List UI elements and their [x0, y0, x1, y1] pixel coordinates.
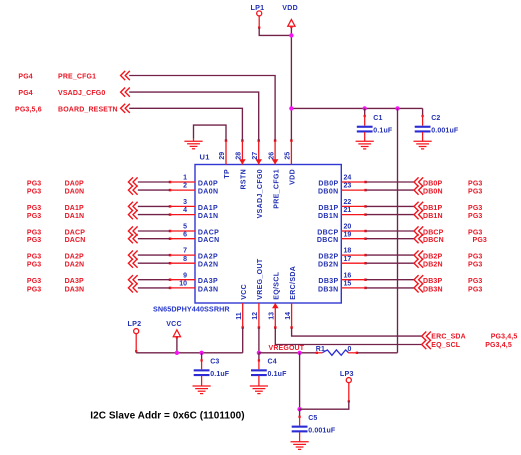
pin 4 stub (DA1N)	[170, 214, 195, 216]
svg-text:DB0P: DB0P	[318, 180, 338, 187]
svg-text:DA2N: DA2N	[198, 262, 218, 269]
svg-text:DBCP: DBCP	[423, 229, 444, 236]
junction C1	[363, 106, 367, 110]
svg-text:PG3: PG3	[27, 237, 41, 244]
off-page connector DB1P	[414, 202, 419, 211]
svg-text:DB2N: DB2N	[423, 262, 443, 269]
wire DA2P	[138, 254, 170, 256]
wire LP1 to VDD	[258, 16, 260, 27]
svg-text:DB1P: DB1P	[318, 205, 338, 212]
pin 27 input arrow	[255, 159, 262, 164]
svg-text:10: 10	[179, 281, 187, 288]
svg-text:DB2P: DB2P	[423, 254, 442, 261]
svg-text:PG3,4,5: PG3,4,5	[491, 334, 518, 341]
svg-text:0.1uF: 0.1uF	[268, 371, 288, 378]
svg-text:DA0N: DA0N	[65, 189, 85, 196]
pin 26 input arrow	[272, 159, 279, 164]
svg-text:RSTN: RSTN	[241, 169, 248, 189]
wire BOARD_RESETN	[129, 108, 242, 140]
pin 5 stub (DACP)	[170, 230, 195, 232]
pin 13 stub (EQ/SCL)	[274, 303, 276, 328]
svg-text:DA2N: DA2N	[65, 262, 85, 269]
svg-text:DB2P: DB2P	[318, 254, 338, 261]
junction VDD rail branch	[289, 106, 293, 110]
resistor R1 0 ohm	[315, 352, 323, 354]
capacitor C5 0.001uF	[299, 409, 301, 417]
svg-text:PG3: PG3	[468, 278, 482, 285]
svg-text:20: 20	[344, 224, 352, 231]
svg-text:C3: C3	[210, 359, 219, 366]
capacitor C1 0.1uF	[364, 108, 366, 116]
svg-text:19: 19	[344, 231, 352, 238]
ground under C5	[299, 432, 301, 442]
junction C3	[199, 351, 203, 355]
svg-text:DA3P: DA3P	[65, 278, 84, 285]
svg-text:LP3: LP3	[340, 369, 354, 378]
svg-text:VCC: VCC	[166, 321, 182, 328]
pin 18 stub (DB2P)	[341, 254, 365, 256]
off-page connector DB1N	[414, 210, 419, 219]
junction LP1/VDD	[289, 33, 293, 37]
power symbol VDD	[288, 19, 295, 26]
wire pin 12 down to VREGOUT	[258, 328, 260, 353]
ground under C1	[364, 132, 366, 141]
off-page connector DB0N	[414, 186, 419, 195]
svg-text:DA0P: DA0P	[198, 180, 218, 187]
svg-text:C4: C4	[268, 359, 277, 366]
svg-text:8: 8	[183, 256, 187, 263]
wire VSADJ_CFG0	[129, 92, 259, 141]
svg-text:PG3: PG3	[27, 286, 41, 293]
pin 6 stub (DACN)	[170, 238, 195, 240]
wire DA1N	[138, 214, 170, 216]
svg-text:VDD: VDD	[282, 5, 298, 12]
wire DACN	[138, 238, 170, 240]
capacitor C4 0.1uF	[258, 353, 260, 361]
svg-text:EQ_SCL: EQ_SCL	[431, 342, 460, 349]
svg-text:PG3: PG3	[468, 213, 482, 220]
svg-text:TP: TP	[224, 169, 231, 179]
svg-text:PG3: PG3	[27, 262, 41, 269]
wire VDD decoupling rail	[291, 107, 422, 109]
wire VCC rail	[136, 352, 243, 354]
junction VREGOUT branch	[297, 351, 301, 355]
svg-text:BOARD_RESETN: BOARD_RESETN	[58, 106, 118, 113]
off-page connector DB2N	[414, 259, 419, 268]
off-page connector DACN	[128, 234, 133, 243]
wire R1 to VDD down-line	[357, 352, 397, 354]
svg-text:SN65DPHY440SSRHR: SN65DPHY440SSRHR	[153, 304, 230, 313]
off-page connector DBCP	[414, 226, 419, 235]
svg-text:PG3,5,6: PG3,5,6	[15, 106, 42, 113]
svg-text:DB0N: DB0N	[423, 189, 443, 196]
svg-text:0.001uF: 0.001uF	[431, 128, 459, 135]
capacitor C3 0.1uF	[201, 353, 203, 361]
test point LP2	[134, 329, 139, 334]
svg-text:DA0N: DA0N	[198, 189, 218, 196]
svg-text:C2: C2	[431, 115, 440, 122]
svg-text:1: 1	[183, 175, 187, 182]
ground symbol at TP	[193, 139, 195, 142]
wire DBCN	[366, 238, 415, 240]
svg-text:DB1N: DB1N	[318, 213, 338, 220]
off-page connector VSADJ_CFG0	[121, 88, 126, 97]
junction VREGOUT/C4	[257, 351, 261, 355]
svg-text:PG3: PG3	[473, 237, 487, 244]
svg-text:PG3: PG3	[468, 262, 482, 269]
ground under C4	[258, 376, 260, 386]
wire LP2 to VCC rail	[135, 334, 137, 353]
wire DA3N	[138, 287, 170, 289]
svg-text:0.1uF: 0.1uF	[373, 128, 393, 135]
svg-text:PG3: PG3	[27, 205, 41, 212]
svg-text:DA1P: DA1P	[65, 205, 84, 212]
svg-text:17: 17	[344, 256, 352, 263]
svg-text:DA3N: DA3N	[198, 286, 218, 293]
ground under C3	[201, 376, 203, 386]
off-page connector DA3P	[128, 275, 133, 284]
svg-text:DA3P: DA3P	[198, 278, 218, 285]
wire VREGOUT	[259, 352, 317, 354]
svg-text:11: 11	[236, 312, 243, 320]
svg-text:28: 28	[236, 152, 243, 160]
wire DA2N	[138, 262, 170, 264]
off-page connector ERC_SDA	[422, 332, 427, 341]
svg-text:24: 24	[344, 175, 352, 182]
svg-text:DACP: DACP	[65, 229, 86, 236]
svg-text:15: 15	[344, 281, 352, 288]
svg-text:22: 22	[344, 199, 352, 206]
svg-text:PG3: PG3	[27, 213, 41, 220]
svg-text:VREG_OUT: VREG_OUT	[257, 258, 264, 300]
svg-text:29: 29	[219, 152, 226, 160]
svg-text:VSADJ_CFG0: VSADJ_CFG0	[58, 90, 105, 97]
pin 1 stub (DA0P)	[170, 181, 195, 183]
svg-text:PRE_CFG1: PRE_CFG1	[273, 169, 280, 209]
svg-text:DBCN: DBCN	[317, 237, 339, 244]
pin 25 stub (VDD)	[290, 141, 292, 165]
pin 28 stub (RSTN)	[241, 141, 243, 165]
wire ERC_SDA	[292, 328, 422, 337]
svg-text:PRE_CFG1: PRE_CFG1	[58, 74, 96, 81]
off-page connector EQ_SCL	[422, 340, 427, 349]
svg-text:U1: U1	[200, 152, 210, 161]
svg-text:3: 3	[183, 199, 187, 206]
svg-text:12: 12	[252, 312, 259, 320]
wire DB0P	[366, 181, 415, 183]
svg-text:DB3P: DB3P	[423, 278, 442, 285]
wire VDD down to R1	[397, 108, 399, 352]
svg-text:PG3: PG3	[468, 180, 482, 187]
pin 7 stub (DA2P)	[170, 254, 195, 256]
capacitor C2 0.001uF	[422, 108, 424, 116]
svg-text:DB3N: DB3N	[423, 286, 443, 293]
svg-text:PG3: PG3	[27, 229, 41, 236]
wire EQ_SCL	[275, 328, 421, 345]
off-page connector DA1P	[128, 202, 133, 211]
wire pin 11 down	[242, 328, 244, 353]
svg-text:16: 16	[344, 272, 352, 279]
wire DA0N	[138, 189, 170, 191]
off-page connector DA1N	[128, 210, 133, 219]
svg-text:C5: C5	[308, 415, 317, 422]
svg-text:DB3P: DB3P	[318, 278, 338, 285]
svg-text:EQ/SCL: EQ/SCL	[274, 271, 281, 300]
svg-text:13: 13	[269, 312, 276, 320]
svg-text:PG3: PG3	[27, 278, 41, 285]
svg-text:0.001uF: 0.001uF	[308, 428, 336, 435]
test point LP3	[346, 378, 351, 383]
svg-text:DACN: DACN	[198, 237, 220, 244]
junction VCC	[175, 351, 179, 355]
pin 8 stub (DA2N)	[170, 262, 195, 264]
svg-text:LP2: LP2	[128, 319, 142, 328]
wire DB1N	[366, 214, 415, 216]
svg-text:27: 27	[252, 152, 259, 160]
svg-text:DB3N: DB3N	[318, 286, 338, 293]
pin 9 stub (DA3P)	[170, 279, 195, 281]
svg-text:14: 14	[285, 312, 292, 320]
svg-text:PG4: PG4	[18, 74, 32, 81]
svg-text:DA1N: DA1N	[198, 213, 218, 220]
IC U1 SN65DPHY440SSRHR body	[195, 165, 341, 304]
off-page connector DB3N	[414, 283, 419, 292]
pin 12 stub (VREG_OUT)	[258, 303, 260, 328]
wire VREGOUT down to C5	[299, 353, 301, 409]
svg-text:7: 7	[183, 248, 187, 255]
svg-text:DB1N: DB1N	[423, 213, 443, 220]
svg-text:18: 18	[344, 248, 352, 255]
svg-text:DB0P: DB0P	[423, 180, 442, 187]
wire PRE_CFG1	[129, 76, 275, 141]
off-page connector BOARD_RESETN	[121, 104, 126, 113]
svg-text:PG3: PG3	[468, 205, 482, 212]
svg-text:R1: R1	[316, 346, 325, 353]
pin 26 stub (PRE_CFG1)	[274, 141, 276, 165]
svg-text:4: 4	[183, 207, 187, 214]
pin 20 stub (DBCP)	[341, 230, 365, 232]
power symbol VCC	[173, 330, 180, 337]
svg-text:DA2P: DA2P	[198, 254, 218, 261]
ground under C2	[422, 132, 424, 141]
pin 23 stub (DB0N)	[341, 189, 365, 191]
svg-text:23: 23	[344, 183, 352, 190]
svg-text:DA1P: DA1P	[198, 205, 218, 212]
pin 24 stub (DB0P)	[341, 181, 365, 183]
off-page connector DACP	[128, 226, 133, 235]
pin 15 stub (DB3N)	[341, 287, 365, 289]
wire DB1P	[366, 205, 415, 207]
svg-text:PG3: PG3	[27, 254, 41, 261]
svg-text:DBCN: DBCN	[423, 237, 444, 244]
pin 3 stub (DA1P)	[170, 205, 195, 207]
svg-text:VDD: VDD	[290, 169, 297, 185]
pin 2 stub (DA0N)	[170, 189, 195, 191]
pin 27 stub (VSADJ_CFG0)	[258, 141, 260, 165]
pin 11 stub (VCC)	[242, 303, 244, 328]
svg-text:LP1: LP1	[251, 3, 265, 12]
svg-text:9: 9	[183, 272, 187, 279]
svg-text:DACN: DACN	[65, 237, 86, 244]
svg-text:PG4: PG4	[18, 90, 32, 97]
svg-text:PG3: PG3	[468, 254, 482, 261]
svg-text:0.1uF: 0.1uF	[210, 371, 230, 378]
pin 22 stub (DB1P)	[341, 205, 365, 207]
svg-text:PG3: PG3	[468, 286, 482, 293]
pin 10 stub (DA3N)	[170, 287, 195, 289]
wire DB3P	[366, 279, 415, 281]
wire LP3 to VREGOUT	[348, 383, 350, 402]
svg-text:I2C Slave Addr = 0x6C (1101100: I2C Slave Addr = 0x6C (1101100)	[90, 411, 244, 422]
wire VDD vertical	[290, 26, 292, 140]
svg-text:DA3N: DA3N	[65, 286, 85, 293]
pin 17 stub (DB2N)	[341, 262, 365, 264]
svg-text:DB1P: DB1P	[423, 205, 442, 212]
svg-text:0: 0	[348, 346, 352, 353]
off-page connector DB3P	[414, 275, 419, 284]
wire DB0N	[366, 189, 415, 191]
pin 21 stub (DB1N)	[341, 214, 365, 216]
wire DBCP	[366, 230, 415, 232]
pin 28 input arrow	[239, 159, 246, 164]
svg-text:26: 26	[268, 152, 275, 160]
svg-text:VSADJ_CFG0: VSADJ_CFG0	[257, 169, 264, 218]
svg-text:DB0N: DB0N	[318, 189, 338, 196]
pin 19 stub (DBCN)	[341, 238, 365, 240]
off-page connector DA0P	[128, 177, 133, 186]
junction down-line	[395, 106, 399, 110]
pin 14 stub (ERC/SDA)	[291, 303, 293, 328]
off-page connector DA3N	[128, 283, 133, 292]
junction C5/LP3	[297, 407, 301, 411]
svg-text:C1: C1	[373, 115, 382, 122]
test point LP1	[257, 11, 262, 16]
wire TP to ground	[194, 125, 227, 141]
off-page connector DA2N	[128, 259, 133, 268]
off-page connector PRE_CFG1	[121, 71, 126, 80]
pin 29 stub (TP)	[225, 141, 227, 165]
svg-text:PG3: PG3	[27, 189, 41, 196]
wire DB3N	[366, 287, 415, 289]
wire DB2N	[366, 262, 415, 264]
svg-text:6: 6	[183, 231, 187, 238]
svg-text:25: 25	[285, 152, 292, 160]
svg-text:PG3: PG3	[27, 180, 41, 187]
wire DACP	[138, 230, 170, 232]
svg-text:DA2P: DA2P	[65, 254, 84, 261]
svg-text:5: 5	[183, 224, 187, 231]
svg-text:DACP: DACP	[198, 229, 219, 236]
off-page connector DB0P	[414, 177, 419, 186]
svg-text:PG3,4,5: PG3,4,5	[485, 342, 512, 349]
svg-text:VCC: VCC	[241, 284, 248, 300]
svg-text:ERC/SDA: ERC/SDA	[290, 266, 297, 300]
wire DA3P	[138, 279, 170, 281]
wire VCC stem	[176, 337, 178, 353]
svg-text:DA1N: DA1N	[65, 213, 85, 220]
wire DA0P	[138, 181, 170, 183]
off-page connector DA0N	[128, 186, 133, 195]
svg-text:DBCP: DBCP	[317, 229, 338, 236]
wire DB2P	[366, 254, 415, 256]
off-page connector DBCN	[414, 234, 419, 243]
pin 16 stub (DB3P)	[341, 279, 365, 281]
svg-text:PG3: PG3	[468, 189, 482, 196]
off-page connector DA2P	[128, 251, 133, 260]
wire DA1P	[138, 205, 170, 207]
svg-text:DB2N: DB2N	[318, 262, 338, 269]
svg-text:DA0P: DA0P	[65, 180, 84, 187]
svg-text:ERC_SDA: ERC_SDA	[431, 334, 466, 341]
svg-text:2: 2	[183, 183, 187, 190]
svg-text:PG3: PG3	[468, 229, 482, 236]
svg-text:21: 21	[344, 207, 352, 214]
pin 13 input arrow	[272, 303, 279, 308]
off-page connector DB2P	[414, 251, 419, 260]
